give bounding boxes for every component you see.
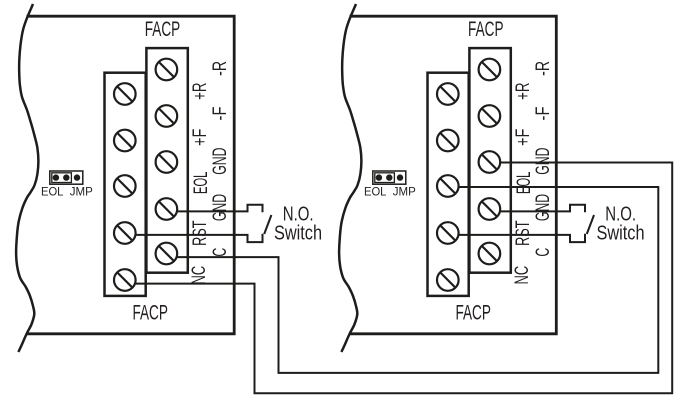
svg-text:GND: GND — [209, 148, 231, 175]
svg-text:JMP: JMP — [393, 185, 416, 199]
terminal block TB1 inner column (panel 1) — [146, 48, 187, 273]
EOL jumper JP2 body — [373, 171, 406, 184]
terminal block TB2 inner column (panel 2) — [469, 48, 510, 273]
svg-text:-F: -F — [532, 107, 554, 121]
screw terminal GND upper (panel 1) — [156, 151, 178, 173]
screw terminal RST (panel 1) — [114, 222, 136, 244]
svg-text:Switch: Switch — [596, 223, 644, 245]
EOL jumper JP1 pin 1 — [53, 174, 59, 180]
switch S2 lever (N.O. switch, panel 2) — [587, 215, 594, 234]
screw terminal -F (panel 1) — [156, 105, 178, 127]
svg-text:GND: GND — [532, 148, 554, 175]
EOL jumper JP1 pin 3 — [74, 174, 80, 180]
switch S1 label — [274, 204, 322, 245]
svg-text:JMP: JMP — [70, 185, 93, 199]
screw terminal EOL (panel 2) — [437, 175, 459, 197]
screw terminal C (panel 1) — [156, 243, 178, 265]
svg-text:+R: +R — [512, 83, 534, 100]
svg-text:GND: GND — [209, 194, 231, 221]
switch S1 lever (N.O. switch, panel 1) — [264, 215, 271, 234]
svg-text:FACP: FACP — [468, 18, 504, 41]
switch S2 label — [596, 204, 644, 245]
svg-text:+F: +F — [189, 129, 211, 146]
EOL JMP label (panel 2) — [364, 185, 416, 199]
terminal block TB1 outer column (panel 1) — [105, 73, 146, 296]
EOL JMP label (panel 1) — [41, 185, 93, 199]
EOL jumper JP2 pin 1 — [376, 174, 382, 180]
svg-text:-F: -F — [209, 107, 231, 121]
terminal block TB2 outer column (panel 2) — [428, 73, 469, 296]
screw terminal NC (panel 1) — [114, 269, 136, 291]
svg-text:NC: NC — [511, 266, 533, 285]
screw terminal +F (panel 1) — [114, 130, 136, 152]
svg-text:NC: NC — [188, 266, 210, 285]
screw terminal -R (panel 2) — [479, 59, 501, 81]
svg-text:GND: GND — [532, 194, 554, 221]
svg-text:C: C — [209, 248, 231, 257]
svg-text:+F: +F — [512, 129, 534, 146]
wire: NC terminal (panel 1) to GND terminal (panel 2) loop — [125, 163, 672, 394]
screw terminal EOL (panel 1) — [114, 175, 136, 197]
EOL jumper JP1 shunt cap — [52, 173, 72, 183]
svg-text:FACP: FACP — [145, 18, 181, 41]
svg-text:EOL: EOL — [364, 185, 387, 199]
svg-text:RST: RST — [189, 221, 211, 246]
svg-text:FACP: FACP — [455, 301, 491, 324]
screw terminal +R (panel 1) — [114, 83, 136, 105]
screw terminal +R (panel 2) — [437, 83, 459, 105]
svg-text:RST: RST — [512, 221, 534, 246]
screw terminal GND lower (panel 1) — [156, 198, 178, 220]
panel 2 torn-edge wavy border — [339, 4, 361, 352]
panel 1 torn-edge wavy border — [16, 4, 38, 352]
wire: C terminal (panel 1) to EOL terminal (panel 2) loop — [166, 187, 658, 373]
svg-text:EOL: EOL — [41, 185, 64, 199]
svg-text:EOL: EOL — [513, 172, 535, 194]
EOL jumper JP2 pin 2 — [386, 174, 392, 180]
screw terminal +F (panel 2) — [437, 130, 459, 152]
svg-text:-R: -R — [532, 61, 554, 76]
EOL jumper JP2 pin 3 — [397, 174, 403, 180]
screw terminal RST (panel 2) — [437, 222, 459, 244]
wire: RST terminal to N.O. switch bottom contact (panel 1) — [125, 234, 263, 242]
wire: RST terminal to N.O. switch bottom contact (panel 2) — [448, 234, 585, 242]
svg-text:EOL: EOL — [190, 172, 212, 194]
screw terminal NC (panel 2) — [437, 269, 459, 291]
svg-text:Switch: Switch — [274, 223, 322, 245]
wire: GND terminal to N.O. switch top contact (panel 2) — [489, 205, 585, 213]
svg-text:+R: +R — [189, 83, 211, 100]
wire: GND terminal to N.O. switch top contact (panel 1) — [166, 205, 262, 213]
EOL jumper JP1 pin 2 — [63, 174, 69, 180]
screw terminal C (panel 2) — [479, 243, 501, 265]
screw terminal GND upper (panel 2) — [479, 151, 501, 173]
FACP panel 1 enclosure outline — [26, 16, 234, 334]
screw terminal GND lower (panel 2) — [479, 198, 501, 220]
EOL jumper JP1 body — [50, 171, 83, 184]
screw terminal -R (panel 1) — [156, 59, 178, 81]
svg-text:C: C — [532, 248, 554, 257]
FACP panel 2 enclosure outline — [349, 16, 556, 334]
svg-text:-R: -R — [209, 61, 231, 76]
screw terminal -F (panel 2) — [479, 105, 501, 127]
EOL jumper JP2 shunt cap — [375, 173, 395, 183]
svg-text:FACP: FACP — [132, 301, 168, 324]
